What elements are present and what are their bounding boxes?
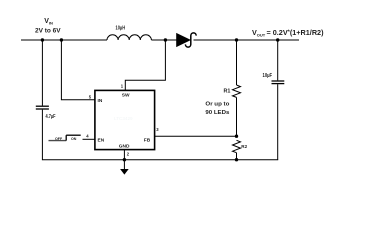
- resistor R2: [233, 140, 241, 152]
- wire: inductor to diode anode: [151, 39, 176, 41]
- label VOUT formula: [252, 28, 324, 38]
- wire: input rail from left to inductor: [21, 39, 107, 41]
- svg-text:Or up to: Or up to: [205, 102, 229, 108]
- svg-text:2V to 6V: 2V to 6V: [35, 27, 61, 34]
- svg-text:4.7µF: 4.7µF: [46, 114, 56, 120]
- svg-text:ON: ON: [71, 137, 77, 141]
- wire: output node down to output cap: [277, 40, 279, 80]
- node: output junction to R1: [235, 38, 238, 41]
- wire: diode cathode to output: [194, 39, 300, 41]
- capacitor C2 10uF: [272, 80, 285, 82]
- svg-text:EN: EN: [98, 137, 105, 143]
- svg-text:IN: IN: [98, 98, 103, 104]
- svg-text:IN: IN: [49, 21, 53, 26]
- node: R2 ground junction: [235, 158, 238, 161]
- EN waveform: OFF low level: [49, 140, 67, 142]
- svg-text:LTC3429: LTC3429: [114, 116, 133, 121]
- ground: [123, 160, 125, 169]
- svg-text:R1: R1: [224, 89, 231, 95]
- svg-text:FB: FB: [144, 137, 151, 143]
- node: SW junction dot: [164, 38, 167, 41]
- svg-text:4: 4: [86, 134, 89, 139]
- node: output junction to output cap: [276, 38, 279, 41]
- svg-text:R2: R2: [241, 144, 247, 149]
- svg-text:90 LEDs: 90 LEDs: [205, 110, 229, 116]
- node: VIN junction to IN pin: [60, 38, 63, 41]
- EN waveform: ON high level: [66, 134, 81, 136]
- wire: GND pin 2 to ground rail: [123, 150, 125, 160]
- svg-text:10µF: 10µF: [263, 73, 273, 79]
- svg-text:5: 5: [89, 95, 92, 100]
- wire: R2 to ground rail: [236, 153, 238, 160]
- svg-text:= 0.2V*(1+R1/R2): = 0.2V*(1+R1/R2): [267, 28, 325, 37]
- svg-text:10µH: 10µH: [116, 26, 126, 32]
- inductor L1 10uH: [107, 35, 151, 40]
- svg-text:1: 1: [121, 84, 124, 89]
- label Or up to 90 LEDs: [205, 102, 229, 117]
- node: ground rail junction: [123, 158, 126, 161]
- svg-text:3: 3: [156, 127, 159, 132]
- wire: R1 to FB node: [236, 97, 238, 136]
- diode D1 (Schottky): [177, 33, 191, 46]
- svg-text:SW: SW: [122, 92, 130, 98]
- node: feedback junction: [235, 135, 238, 138]
- svg-text:2: 2: [127, 152, 130, 157]
- wire: VIN junction down and to IN pin 5: [61, 40, 95, 100]
- wire: FB pin 3 to feedback node: [155, 135, 237, 137]
- wire: VIN down to input cap: [41, 40, 43, 106]
- svg-text:OUT: OUT: [257, 33, 266, 38]
- svg-text:OFF: OFF: [55, 137, 63, 141]
- wire: SW node down and over to pin 1: [125, 40, 165, 90]
- resistor R1: [233, 85, 241, 97]
- wire: output node down to R1: [236, 40, 238, 85]
- op-amp U1 (boost converter IC): [95, 90, 155, 149]
- capacitor C1 4.7uF: [36, 105, 49, 107]
- label VIN: [44, 18, 53, 26]
- node: VIN junction to input cap: [41, 38, 44, 41]
- wire: output cap to ground rail: [277, 84, 279, 160]
- wire: EN stub to pin 4: [83, 138, 95, 140]
- EN waveform: rising edge: [65, 135, 67, 140]
- svg-text:GND: GND: [119, 144, 130, 150]
- wire: input cap to ground rail: [42, 110, 278, 160]
